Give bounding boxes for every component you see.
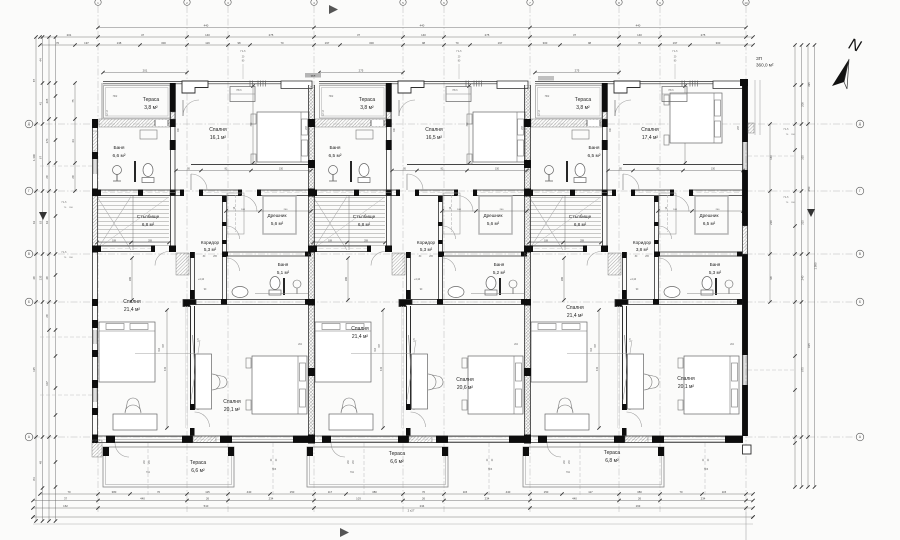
svg-text:5,3 м²: 5,3 м² xyxy=(420,247,433,252)
svg-text:12 13: 12 13 xyxy=(323,109,325,115)
svg-text:5,6 м²: 5,6 м² xyxy=(271,221,284,226)
svg-text:26: 26 xyxy=(422,497,426,501)
svg-text:П02: П02 xyxy=(545,95,550,98)
svg-text:48: 48 xyxy=(32,276,36,280)
svg-text:510: 510 xyxy=(204,504,209,508)
svg-text:150: 150 xyxy=(495,168,500,171)
svg-text:87: 87 xyxy=(32,79,36,83)
svg-text:3,8 м²: 3,8 м² xyxy=(576,105,590,111)
svg-text:197: 197 xyxy=(673,41,678,45)
svg-text:Тераса: Тераса xyxy=(604,450,621,456)
svg-text:Г1-б: Г1-б xyxy=(456,50,462,53)
svg-text:Баня: Баня xyxy=(494,262,505,267)
svg-text:75: 75 xyxy=(71,99,75,103)
svg-text:98: 98 xyxy=(769,276,773,280)
svg-text:Тераса: Тераса xyxy=(575,97,592,103)
svg-text:140: 140 xyxy=(421,33,426,37)
svg-text:16,5 м²: 16,5 м² xyxy=(426,135,443,141)
svg-text:Г1-б: Г1-б xyxy=(784,196,789,199)
svg-text:67: 67 xyxy=(39,156,43,160)
svg-text:415: 415 xyxy=(596,366,599,371)
svg-text:Г1-б: Г1-б xyxy=(240,50,246,53)
svg-text:162: 162 xyxy=(63,504,68,508)
svg-text:103: 103 xyxy=(356,497,361,501)
svg-text:Г1-б: Г1-б xyxy=(784,128,789,131)
svg-text:240: 240 xyxy=(800,275,804,280)
svg-text:Баня: Баня xyxy=(329,145,340,151)
svg-text:21,4 м²: 21,4 м² xyxy=(124,307,141,313)
svg-text:Коридор: Коридор xyxy=(417,240,436,245)
svg-text:Спалня: Спалня xyxy=(566,305,584,311)
svg-text:5,6 м²: 5,6 м² xyxy=(487,221,500,226)
svg-text:70: 70 xyxy=(280,41,284,45)
svg-text:275: 275 xyxy=(359,69,364,73)
svg-text:ПБ 6: ПБ 6 xyxy=(452,90,458,92)
svg-text:107: 107 xyxy=(45,381,49,386)
svg-text:12 13: 12 13 xyxy=(539,109,541,115)
svg-text:Баня: Баня xyxy=(588,145,599,151)
svg-text:163: 163 xyxy=(636,504,641,508)
svg-text:Дрешник: Дрешник xyxy=(699,213,719,218)
svg-text:265: 265 xyxy=(129,276,132,281)
svg-text:63: 63 xyxy=(45,221,49,225)
svg-text:21,4 м²: 21,4 м² xyxy=(567,313,584,319)
svg-text:135: 135 xyxy=(32,367,36,372)
svg-text:1.990: 1.990 xyxy=(814,262,818,269)
svg-text:415: 415 xyxy=(164,366,167,371)
svg-text:650: 650 xyxy=(807,186,811,191)
svg-text:70: 70 xyxy=(56,41,60,45)
svg-text:Спалня: Спалня xyxy=(425,127,443,133)
svg-text:осн: осн xyxy=(311,74,316,78)
svg-text:119: 119 xyxy=(205,41,210,45)
svg-text:Стълбище: Стълбище xyxy=(569,214,592,219)
svg-text:П11: П11 xyxy=(146,472,151,474)
svg-text:275: 275 xyxy=(575,69,580,73)
svg-text:380: 380 xyxy=(372,490,377,494)
svg-text:197: 197 xyxy=(84,41,89,45)
svg-text:440: 440 xyxy=(506,490,511,494)
svg-text:117: 117 xyxy=(328,490,333,494)
svg-text:315: 315 xyxy=(800,220,804,225)
svg-text:10: 10 xyxy=(744,1,748,5)
svg-text:140: 140 xyxy=(637,33,642,37)
svg-text:П06: П06 xyxy=(272,469,277,471)
svg-text:28: 28 xyxy=(45,314,49,318)
svg-text:300: 300 xyxy=(716,41,721,45)
svg-text:17,4 м²: 17,4 м² xyxy=(642,135,659,141)
svg-text:3,8 м²: 3,8 м² xyxy=(360,105,374,111)
svg-text:70: 70 xyxy=(455,41,459,45)
svg-text:1.300: 1.300 xyxy=(32,154,36,161)
svg-text:915: 915 xyxy=(807,343,811,348)
svg-text:Стълбище: Стълбище xyxy=(353,214,376,219)
svg-text:115: 115 xyxy=(463,490,468,494)
svg-text:117: 117 xyxy=(588,490,593,494)
svg-text:Тераса: Тераса xyxy=(359,97,376,103)
svg-text:150: 150 xyxy=(711,168,716,171)
svg-text:98: 98 xyxy=(422,41,426,45)
svg-text:П02: П02 xyxy=(329,95,334,98)
svg-text:6,8 м²: 6,8 м² xyxy=(358,222,371,227)
svg-text:5,2 м²: 5,2 м² xyxy=(493,270,506,275)
svg-text:140: 140 xyxy=(769,155,773,160)
svg-text:440: 440 xyxy=(636,24,641,28)
svg-text:Коридор: Коридор xyxy=(633,240,652,245)
svg-text:ПБ 6: ПБ 6 xyxy=(668,90,674,92)
svg-text:230: 230 xyxy=(769,220,773,225)
svg-text:2 x27: 2 x27 xyxy=(408,509,415,513)
svg-text:Тераса: Тераса xyxy=(190,460,207,466)
svg-text:+4,10: +4,10 xyxy=(630,278,637,281)
svg-text:16,1 м²: 16,1 м² xyxy=(210,135,227,141)
svg-text:415: 415 xyxy=(380,366,383,371)
svg-text:37: 37 xyxy=(357,33,361,37)
svg-text:395: 395 xyxy=(807,82,811,87)
svg-text:Тераса: Тераса xyxy=(389,451,406,457)
svg-text:20,1 м²: 20,1 м² xyxy=(678,384,695,390)
svg-text:П11: П11 xyxy=(566,472,571,474)
svg-text:63: 63 xyxy=(39,221,43,225)
svg-text:197: 197 xyxy=(325,41,330,45)
svg-text:Спалня: Спалня xyxy=(223,399,241,405)
svg-text:265: 265 xyxy=(345,276,348,281)
svg-text:В: В xyxy=(859,252,861,256)
svg-text:201: 201 xyxy=(143,69,148,73)
svg-text:44: 44 xyxy=(39,58,43,62)
svg-text:138: 138 xyxy=(117,41,122,45)
svg-text:Спалня: Спалня xyxy=(351,326,369,332)
svg-text:115: 115 xyxy=(722,490,727,494)
svg-text:6,8 м²: 6,8 м² xyxy=(142,222,155,227)
svg-text:70: 70 xyxy=(679,490,683,494)
svg-text:5,1 м²: 5,1 м² xyxy=(277,270,290,275)
svg-text:Г1-б: Г1-б xyxy=(62,201,67,204)
svg-text:П11: П11 xyxy=(350,472,355,474)
svg-text:140: 140 xyxy=(205,33,210,37)
svg-text:+4,10: +4,10 xyxy=(198,278,205,281)
svg-text:Спалня: Спалня xyxy=(641,127,659,133)
svg-text:Коридор: Коридор xyxy=(201,240,220,245)
svg-text:3,8 м²: 3,8 м² xyxy=(636,247,649,252)
svg-text:150: 150 xyxy=(279,168,284,171)
svg-text:440: 440 xyxy=(140,497,145,501)
svg-text:6,5 м²: 6,5 м² xyxy=(588,153,601,159)
svg-text:Г1-б: Г1-б xyxy=(62,251,67,254)
svg-text:335: 335 xyxy=(800,155,804,160)
svg-text:20,6 м²: 20,6 м² xyxy=(457,385,474,391)
svg-text:135: 135 xyxy=(39,275,43,280)
svg-text:275: 275 xyxy=(269,33,274,37)
svg-text:47: 47 xyxy=(141,33,145,37)
svg-text:440: 440 xyxy=(204,24,209,28)
svg-text:70: 70 xyxy=(67,490,71,494)
svg-text:44: 44 xyxy=(71,139,75,143)
svg-text:Г: Г xyxy=(28,189,30,193)
svg-text:63: 63 xyxy=(32,221,36,225)
svg-text:300: 300 xyxy=(543,41,548,45)
svg-text:Б: Б xyxy=(28,300,30,304)
svg-text:П02: П02 xyxy=(113,95,118,98)
svg-text:6,8 м²: 6,8 м² xyxy=(605,458,619,464)
svg-text:48: 48 xyxy=(45,276,49,280)
svg-text:П06: П06 xyxy=(704,469,709,471)
svg-text:28: 28 xyxy=(71,175,75,179)
svg-text:234: 234 xyxy=(485,497,490,501)
svg-text:21,4 м²: 21,4 м² xyxy=(352,334,369,340)
svg-text:Б: Б xyxy=(859,300,861,304)
svg-text:300: 300 xyxy=(161,41,166,45)
svg-text:Спалня: Спалня xyxy=(677,376,695,382)
svg-text:170: 170 xyxy=(45,138,49,143)
svg-text:Дрешник: Дрешник xyxy=(483,213,503,218)
svg-text:5,3 м²: 5,3 м² xyxy=(204,247,217,252)
svg-text:200: 200 xyxy=(800,102,804,107)
svg-text:70: 70 xyxy=(638,41,642,45)
svg-text:98: 98 xyxy=(588,41,592,45)
svg-text:440: 440 xyxy=(572,497,577,501)
svg-text:Г: Г xyxy=(859,189,861,193)
svg-text:6,5 м²: 6,5 м² xyxy=(703,221,716,226)
svg-text:ЗП: ЗП xyxy=(756,56,762,61)
svg-text:275: 275 xyxy=(701,33,706,37)
svg-text:98: 98 xyxy=(237,41,241,45)
svg-text:150: 150 xyxy=(290,490,295,494)
svg-text:49: 49 xyxy=(39,461,43,465)
svg-text:6,6 м²: 6,6 м² xyxy=(390,459,404,465)
svg-text:675: 675 xyxy=(800,367,804,372)
svg-text:ПБ 6: ПБ 6 xyxy=(236,90,242,92)
svg-text:6,8 м²: 6,8 м² xyxy=(574,222,587,227)
svg-text:380: 380 xyxy=(112,490,117,494)
svg-text:Г1-б: Г1-б xyxy=(672,50,678,53)
svg-text:Баня: Баня xyxy=(278,262,289,267)
svg-text:Дрешник: Дрешник xyxy=(267,213,287,218)
svg-text:Баня: Баня xyxy=(113,145,124,151)
svg-text:6,6 м²: 6,6 м² xyxy=(191,468,205,474)
svg-text:234: 234 xyxy=(701,497,706,501)
svg-text:26: 26 xyxy=(206,497,210,501)
svg-text:360,0 м²: 360,0 м² xyxy=(756,63,774,68)
svg-text:84: 84 xyxy=(32,477,36,481)
svg-text:Тераса: Тераса xyxy=(143,97,160,103)
svg-text:265: 265 xyxy=(561,276,564,281)
svg-text:201: 201 xyxy=(67,33,72,37)
svg-text:В: В xyxy=(28,252,30,256)
svg-text:300: 300 xyxy=(369,41,374,45)
svg-text:П06: П06 xyxy=(488,469,493,471)
svg-text:440: 440 xyxy=(420,24,425,28)
svg-text:28: 28 xyxy=(45,175,49,179)
svg-text:70: 70 xyxy=(422,490,426,494)
svg-text:Баня: Баня xyxy=(710,262,721,267)
svg-text:234: 234 xyxy=(269,497,274,501)
svg-text:41: 41 xyxy=(39,102,43,106)
svg-text:+4,10: +4,10 xyxy=(414,278,421,281)
svg-text:3,8 м²: 3,8 м² xyxy=(144,105,158,111)
svg-text:6,5 м²: 6,5 м² xyxy=(329,153,342,159)
svg-text:6,6 м²: 6,6 м² xyxy=(113,153,126,159)
svg-text:37: 37 xyxy=(64,497,68,501)
svg-text:Стълбище: Стълбище xyxy=(137,214,160,219)
svg-text:197: 197 xyxy=(498,41,503,45)
svg-text:5,3 м²: 5,3 м² xyxy=(709,270,722,275)
svg-text:380: 380 xyxy=(637,490,642,494)
svg-text:440: 440 xyxy=(247,490,252,494)
svg-text:115: 115 xyxy=(205,490,210,494)
svg-text:70: 70 xyxy=(157,490,161,494)
svg-text:265: 265 xyxy=(45,98,49,103)
svg-text:150: 150 xyxy=(544,490,549,494)
svg-text:Спалня: Спалня xyxy=(456,377,474,383)
svg-text:275: 275 xyxy=(485,33,490,37)
svg-text:Спалня: Спалня xyxy=(209,127,227,133)
svg-text:12 13: 12 13 xyxy=(107,109,109,115)
svg-text:26: 26 xyxy=(638,497,642,501)
svg-text:234: 234 xyxy=(420,504,425,508)
svg-text:37: 37 xyxy=(573,33,577,37)
svg-text:20,1 м²: 20,1 м² xyxy=(224,407,241,413)
